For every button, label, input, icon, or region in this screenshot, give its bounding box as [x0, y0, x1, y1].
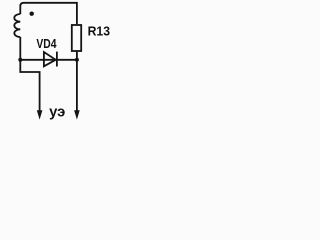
svg-text:VD4: VD4	[36, 36, 57, 51]
svg-text:уэ: уэ	[49, 103, 65, 120]
svg-text:R13: R13	[88, 23, 110, 38]
